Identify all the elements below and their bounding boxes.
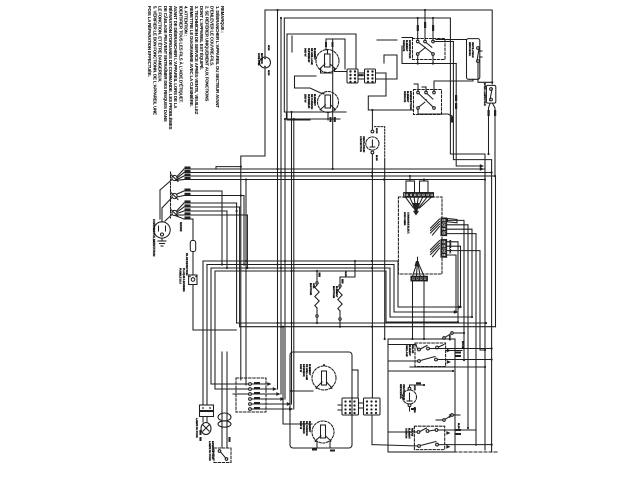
convection fan M2 [366,130,379,154]
wire plug to terminal 1 [160,180,172,220]
lock switch S6 [436,414,460,422]
notes text block (French remarks, rotated) [147,6,225,130]
label S4 [483,83,486,106]
wire v456 drop [456,64,484,168]
upper oven enclosure [287,34,356,120]
terminal block TB1 terminal 2 [171,193,178,200]
wire SW2 top feeds [414,79,473,91]
connector CN1 [347,69,358,83]
svg-text:LAMPE DU FOUR: LAMPE DU FOUR [195,418,198,438]
harness connector CN3 [236,378,266,412]
svg-text:MASSE: MASSE [179,222,183,232]
power plug P1 [154,219,170,246]
wire CN4-CN5 links [338,370,364,410]
junction dots bus3 [276,322,373,328]
vent fan switch S3 [467,39,483,80]
wire plug to terminal 2 [162,198,172,220]
label plaque bornes [179,268,186,292]
A1 bottom connector [411,257,427,281]
cooling fan M3 [403,387,417,406]
terminal block TB1 terminal 1 [171,175,178,182]
fuse F1 [190,241,195,276]
upper broil element E1 [316,50,339,73]
relay K2 row [388,357,493,364]
svg-text:GRILLAGE: GRILLAGE [405,345,408,357]
wire right rail B lower [453,42,491,453]
wire M3 top [410,382,426,411]
wire SW1 to S3 feed [436,39,467,41]
upper bake element E2 [318,92,339,121]
oven light switch S4 [486,85,495,103]
wire bus2 line4 [215,271,459,389]
wire mid vertical v285 [284,118,286,399]
wire J1 out2 [447,225,469,429]
A1 display connector loops [406,181,428,193]
dashed gang line TB1 [170,172,172,218]
wire J2 out2 [447,246,462,308]
label R2 [332,271,347,299]
svg-text:NOIR: NOIR [267,70,270,76]
wire bus2 line2 [207,265,458,314]
A1 pin strip J2 [431,240,447,258]
wire bus2 line3 [211,268,473,384]
wire top rail L1 [265,10,492,84]
label relais flags [448,335,464,349]
label LT2 [208,441,214,461]
lower relay box [388,339,455,452]
wire SW1 top feeds [417,9,435,40]
light switch S8 box [214,448,231,463]
label E4 [299,421,311,436]
svg-text:BLEU: BLEU [457,423,460,429]
wire L2 mid drop [284,18,346,112]
label LT1 [195,418,198,438]
svg-text:MIJOTAGE: MIJOTAGE [332,286,335,299]
wire mid vertical v294 [293,118,295,409]
wire J2 out4 [447,255,457,313]
wire upper box top right [377,39,397,41]
S4 pigtail left [487,103,490,155]
relay K1 row1 [388,345,493,351]
relay group KR1 dashed box [415,343,446,367]
wire top rail L2 [284,18,485,450]
wire branch y119 [286,34,340,119]
resistor element R1 [315,270,321,317]
svg-text:SURFACE: SURFACE [403,91,406,103]
svg-text:NOIR: NOIR [448,335,451,341]
wire R1 bottom [316,317,318,324]
A1 strip top wires [409,175,425,181]
flags LT1 left [200,430,202,441]
svg-text:3400 W: 3400 W [304,48,307,57]
junction dots bus1 crossings [276,168,385,181]
wire bus1c right drop [495,176,497,327]
wire bus2 line1 [203,261,462,309]
A1 bottom wires down [411,281,425,340]
label element gril sup [304,48,316,65]
svg-text:INTER. LAMPE FOUR: INTER. LAMPE FOUR [483,83,486,106]
label S3 [468,42,474,58]
svg-text:3400 W: 3400 W [299,364,302,373]
wire R2 top [340,260,356,277]
junction dots bus2 [245,260,373,272]
resistor element R2 [338,277,344,320]
svg-text:2500 W: 2500 W [304,94,307,103]
label element cuisson sup [304,94,316,109]
svg-text:NOIR: NOIR [375,128,378,134]
wire J1 out3 [447,229,472,317]
connector CN5 [364,398,381,415]
relay K4 row1 [388,428,476,435]
label masse [179,222,183,232]
control board A1 dashed outline [398,197,442,274]
wire mid vertical v240 [240,167,242,380]
wire J2 out1 [447,242,458,322]
wire J1 out4 [447,234,476,446]
wire J1 out1 [447,220,465,361]
wire plug to terminal 3 [165,215,172,222]
svg-text:REFROIDISS.: REFROIDISS. [468,42,471,57]
svg-text:NOIR: NOIR [344,271,347,277]
relay group KR2 dashed box [414,426,444,449]
wire y371 link [388,370,454,372]
wire mid vertical v277 [276,9,278,389]
svg-text:BLEU: BLEU [413,407,416,413]
lower bake element E4 [312,421,334,443]
connector CN4 [342,398,359,415]
wire SW1 left dashed stub [402,37,413,39]
svg-text:CORDON D'ALIMENTATION: CORDON D'ALIMENTATION [152,219,156,256]
wire E3 feed [290,390,313,392]
wire bundle from terminal 3 [175,200,248,326]
oven lamp LT1 receptacle [200,405,214,422]
svg-text:2500 W: 2500 W [299,421,302,430]
wire SW2 bottom feeds [418,95,457,123]
wire E1 top feed [325,39,345,69]
wire lamp feed 2 [206,265,208,406]
svg-text:HORLOGE: HORLOGE [257,53,260,66]
label J1 flag [448,219,458,254]
connector CN2 [365,69,376,83]
terminal block TB1 terminal 3 [171,210,178,217]
label R1 [309,283,315,296]
wire CN5 bottom out [371,415,373,445]
wire E3 E4 bottom labels [312,442,335,452]
wire box bottom dashed [414,451,497,453]
wire mid vertical v281 [280,17,282,394]
label fil detection [185,253,188,276]
oven lamp LT1 bulb [201,423,211,435]
wire SW1 bottom run [402,46,456,65]
wire E4 feed [283,327,312,424]
ground switch S7 [189,275,237,330]
wires CN3 out [251,382,293,411]
lock switch S5 [443,332,465,340]
wire bus1 from terminal 1 [175,167,496,181]
svg-text:FUSIBLE 15 A: FUSIBLE 15 A [179,268,182,284]
wire E2 left bend [295,76,323,94]
wire relay rail y367 [410,366,486,368]
label horloge [257,45,270,76]
svg-text:NOIR: NOIR [413,385,416,391]
wire E1 to CN1 [321,69,348,73]
wire R2 bottom [339,320,341,328]
label KR2 [405,428,414,439]
lower oven enclosure [290,352,352,448]
label KR1 [405,345,414,357]
svg-text:ROUGE: ROUGE [461,341,464,349]
lower broil element E3 [312,364,336,390]
clock motor M1 [260,57,271,68]
wires CN3 left stubs [233,384,249,394]
wire bus3 line2 [240,326,496,328]
relay K4 row2 [372,442,493,449]
wire element feed vertical [330,39,336,170]
svg-text:REFROIDISS.: REFROIDISS. [399,384,402,399]
A1 terminal strip [404,193,434,198]
svg-text:FOIS LA RÉPARATION EFFECTUÉE.: FOIS LA RÉPARATION EFFECTUÉE. [147,6,152,77]
wire lamp feed 1 [202,261,204,405]
wire SW1 right to v453 [434,41,453,43]
label K4 flags [448,414,460,429]
surface switch SW2 (dashed box) [414,90,442,115]
label E3 [299,364,311,380]
wire L1 clock drop staircase [216,10,265,169]
A1 harness fan [406,197,432,215]
label SW2 [403,91,412,110]
wire M2 down [371,109,373,398]
wire bus3 line1 [237,322,488,324]
label M3 [399,384,416,413]
wire mid vertical v291 [290,111,292,404]
wire J2 out3 [447,251,486,352]
label M2 [359,128,378,161]
oven lamp LT2 socket [218,413,231,442]
svg-text:CUISSON: CUISSON [405,428,408,439]
wire M2 dashed stub [375,127,386,341]
wire mid vertical v246 [245,178,247,385]
wire CN1-CN2 link [358,73,365,79]
A1 pin strip J1 [431,218,447,236]
label SW1 [402,40,411,59]
wire CN2 right wiring [368,55,413,110]
svg-text:NOIR ON/BK: NOIR ON/BK [403,212,406,226]
svg-text:MIJOTAGE: MIJOTAGE [309,283,312,296]
svg-text:LAMPE DU FOUR: LAMPE DU FOUR [208,441,211,461]
svg-text:BLEU: BLEU [375,155,378,161]
relay K1 row2 [436,345,462,358]
svg-text:CONVECTION: CONVECTION [359,136,362,152]
wire pair from terminal 2 (lamp feed) [177,189,245,449]
svg-text:COMMANDE ELECT.: COMMANDE ELECT. [407,212,410,234]
label cordon alimentation [152,219,156,256]
label A1 [403,212,410,234]
S4 pigtail right [493,103,497,177]
svg-text:NOIR: NOIR [267,45,270,51]
surface switch SW1 (dashed box) [413,39,446,60]
wire S3 bottom to rail [478,62,493,83]
